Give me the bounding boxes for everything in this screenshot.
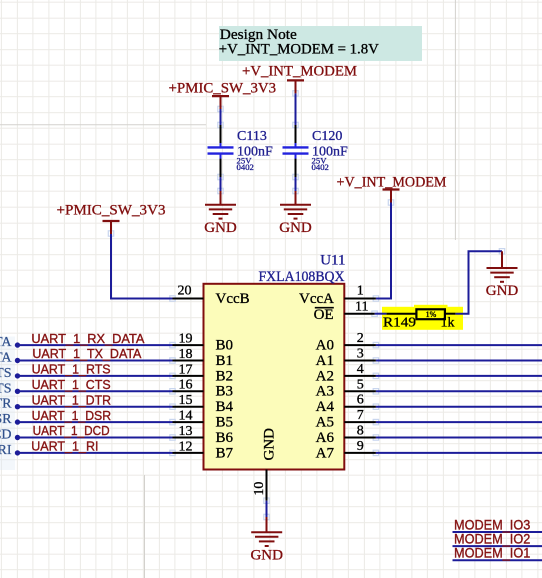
- svg-text:UART_1_RTS: UART_1_RTS: [32, 362, 111, 377]
- wire A7 to edge: [376, 452, 542, 454]
- wire: [220, 177, 222, 191]
- wire net UART_1_CTS: [18, 390, 173, 392]
- svg-text:UART_1_TX_DATA: UART_1_TX_DATA: [32, 346, 141, 361]
- svg-text:U11: U11: [320, 253, 345, 269]
- wire A4 to edge: [376, 406, 542, 408]
- svg-text:8: 8: [357, 424, 364, 439]
- pin 13 B6: [173, 437, 204, 439]
- svg-text:13: 13: [179, 424, 193, 439]
- svg-text:VccB: VccB: [216, 291, 250, 307]
- pin 14 B5: [173, 421, 204, 423]
- svg-text:16: 16: [179, 378, 193, 393]
- pin 19 B0: [173, 344, 204, 346]
- pin 6 A4: [344, 406, 376, 408]
- svg-text:TS: TS: [0, 381, 12, 396]
- junction: [15, 435, 20, 440]
- svg-text:10: 10: [252, 482, 267, 496]
- svg-text:RI: RI: [0, 443, 12, 458]
- wire net MODEM_IO1: [453, 559, 542, 561]
- svg-text:17: 17: [179, 362, 193, 377]
- junction: [15, 358, 20, 363]
- svg-text:+V_INT_MODEM: +V_INT_MODEM: [242, 64, 357, 80]
- wire net UART_1_TX_DATA: [18, 360, 173, 362]
- pin 4 A2: [344, 375, 376, 377]
- svg-text:UART_1_CTS: UART_1_CTS: [32, 377, 111, 392]
- pin 12 B7: [173, 452, 204, 454]
- svg-text:20: 20: [178, 283, 192, 298]
- wire A5 to edge: [376, 421, 542, 423]
- wire net UART_1_RTS: [18, 375, 173, 377]
- svg-text:TR: TR: [0, 397, 12, 412]
- svg-text:UART_1_DCD: UART_1_DCD: [33, 423, 110, 438]
- svg-text:A2: A2: [316, 368, 334, 384]
- IC U11 FXLA108BQX: [204, 284, 345, 470]
- svg-text:Design Note: Design Note: [220, 27, 297, 43]
- junction: [15, 419, 20, 424]
- svg-text:2: 2: [357, 331, 364, 346]
- wire net UART_1_RX_DATA: [18, 344, 173, 346]
- wire net UART_1_DCD: [18, 437, 173, 439]
- svg-text:GND: GND: [262, 428, 278, 461]
- pin 15 B4: [173, 406, 204, 408]
- svg-text:0402: 0402: [237, 162, 254, 172]
- svg-text:B4: B4: [216, 399, 234, 415]
- svg-text:+PMIC_SW_3V3: +PMIC_SW_3V3: [168, 81, 276, 97]
- svg-text:TA: TA: [0, 335, 12, 350]
- junction: [15, 450, 20, 455]
- svg-text:1: 1: [357, 284, 364, 299]
- svg-text:UART_1_DSR: UART_1_DSR: [32, 408, 112, 423]
- svg-text:UART_1_DTR: UART_1_DTR: [32, 392, 112, 407]
- wire to pin 1: [376, 203, 391, 299]
- svg-text:GND: GND: [279, 220, 312, 236]
- pin 16 B3: [173, 390, 204, 392]
- svg-text:6: 6: [357, 393, 364, 408]
- wire A2 to edge: [376, 375, 542, 377]
- svg-text:B5: B5: [216, 415, 234, 431]
- svg-text:0402: 0402: [312, 162, 329, 172]
- svg-text:SR: SR: [0, 412, 12, 427]
- svg-text:B3: B3: [216, 384, 234, 400]
- pin 7 A5: [344, 421, 376, 423]
- capacitor C120: [295, 125, 297, 177]
- wire net MODEM_IO2: [453, 545, 542, 547]
- pin 1 VccA: [344, 298, 376, 300]
- wire: [295, 93, 297, 125]
- resistor R149: [416, 309, 445, 319]
- svg-text:15: 15: [179, 393, 193, 408]
- svg-text:4: 4: [357, 362, 364, 377]
- ground stub: [295, 191, 297, 205]
- svg-text:A4: A4: [316, 399, 335, 415]
- svg-text:R149: R149: [383, 316, 416, 331]
- wire A6 to edge: [376, 437, 542, 439]
- svg-text:14: 14: [179, 409, 193, 424]
- svg-text:A0: A0: [316, 338, 334, 354]
- svg-text:B1: B1: [216, 353, 234, 369]
- svg-text:B0: B0: [216, 338, 234, 354]
- ground GND (C113): [205, 205, 236, 219]
- svg-text:1%: 1%: [426, 310, 437, 319]
- svg-text:7: 7: [357, 408, 364, 423]
- svg-text:+PMIC_SW_3V3: +PMIC_SW_3V3: [57, 203, 166, 219]
- design note: [219, 26, 422, 61]
- pin 2 A0: [344, 344, 376, 346]
- wire net UART_1_RI: [18, 452, 173, 454]
- pin 17 B2: [173, 375, 204, 377]
- ground GND (C120): [280, 205, 311, 219]
- svg-text:TS: TS: [0, 366, 12, 381]
- wire: [220, 109, 222, 126]
- svg-text:GND: GND: [204, 220, 237, 236]
- svg-text:OE: OE: [314, 307, 334, 323]
- svg-text:A1: A1: [316, 353, 334, 369]
- pin 9 A7: [344, 452, 376, 454]
- svg-text:11: 11: [355, 300, 368, 315]
- wire A0 to edge: [376, 344, 542, 346]
- wire A3 to edge: [376, 390, 542, 392]
- junction: [15, 389, 20, 394]
- svg-text:CD: CD: [0, 428, 12, 443]
- svg-text:19: 19: [179, 332, 193, 347]
- svg-text:1k: 1k: [441, 316, 455, 331]
- svg-text:UART_1_RI: UART_1_RI: [31, 439, 98, 454]
- svg-text:MODEM_IO1: MODEM_IO1: [454, 545, 530, 561]
- pin 18 B1: [173, 360, 204, 362]
- svg-text:18: 18: [179, 347, 193, 362]
- ground GND (OE pulldown): [487, 268, 518, 282]
- svg-text:TA: TA: [0, 351, 12, 366]
- ground stub: [501, 251, 503, 268]
- svg-text:FXLA108BQX: FXLA108BQX: [259, 269, 345, 285]
- svg-text:C113: C113: [237, 129, 267, 144]
- pin 11 OE: [344, 313, 374, 315]
- svg-text:VccA: VccA: [299, 291, 334, 307]
- svg-text:12: 12: [179, 439, 193, 454]
- wire net UART_1_DTR: [18, 406, 173, 408]
- wire: [266, 501, 268, 517]
- svg-text:A5: A5: [316, 415, 334, 431]
- wire to pin 20: [111, 234, 173, 299]
- ground stub: [266, 517, 268, 532]
- junction: [15, 373, 20, 378]
- wire OE to R149: [375, 313, 387, 315]
- svg-text:B7: B7: [216, 445, 234, 461]
- svg-text:+V_INT_MODEM = 1.8V: +V_INT_MODEM = 1.8V: [219, 42, 379, 58]
- pin 3 A1: [344, 360, 376, 362]
- highlight R149: [382, 307, 463, 330]
- pin 20 VccB: [173, 298, 204, 300]
- svg-text:B6: B6: [216, 430, 234, 446]
- svg-text:A6: A6: [316, 430, 335, 446]
- svg-text:A3: A3: [316, 384, 334, 400]
- pin 8 A6: [344, 437, 376, 439]
- wire A1 to edge: [376, 360, 542, 362]
- svg-text:3: 3: [357, 347, 364, 362]
- svg-text:C120: C120: [312, 129, 342, 144]
- pin junction markers: [108, 91, 504, 520]
- svg-text:5: 5: [357, 377, 364, 392]
- svg-text:GND: GND: [486, 283, 519, 299]
- svg-text:GND: GND: [250, 547, 283, 563]
- svg-text:9: 9: [357, 439, 364, 454]
- junction: [15, 404, 20, 409]
- ground stub: [220, 191, 222, 205]
- capacitor C113: [220, 125, 222, 177]
- ground GND (pin 10): [251, 532, 282, 546]
- pin 5 A3: [344, 390, 376, 392]
- svg-text:A7: A7: [316, 445, 335, 461]
- svg-text:UART_1_RX_DATA: UART_1_RX_DATA: [31, 331, 144, 346]
- wire net UART_1_DSR: [18, 421, 173, 423]
- wire: [295, 177, 297, 191]
- wire: [445, 313, 456, 315]
- svg-text:B2: B2: [216, 368, 234, 384]
- junction: [15, 342, 20, 347]
- svg-text:+V_INT_MODEM: +V_INT_MODEM: [337, 175, 447, 191]
- wire net MODEM_IO3: [453, 531, 542, 533]
